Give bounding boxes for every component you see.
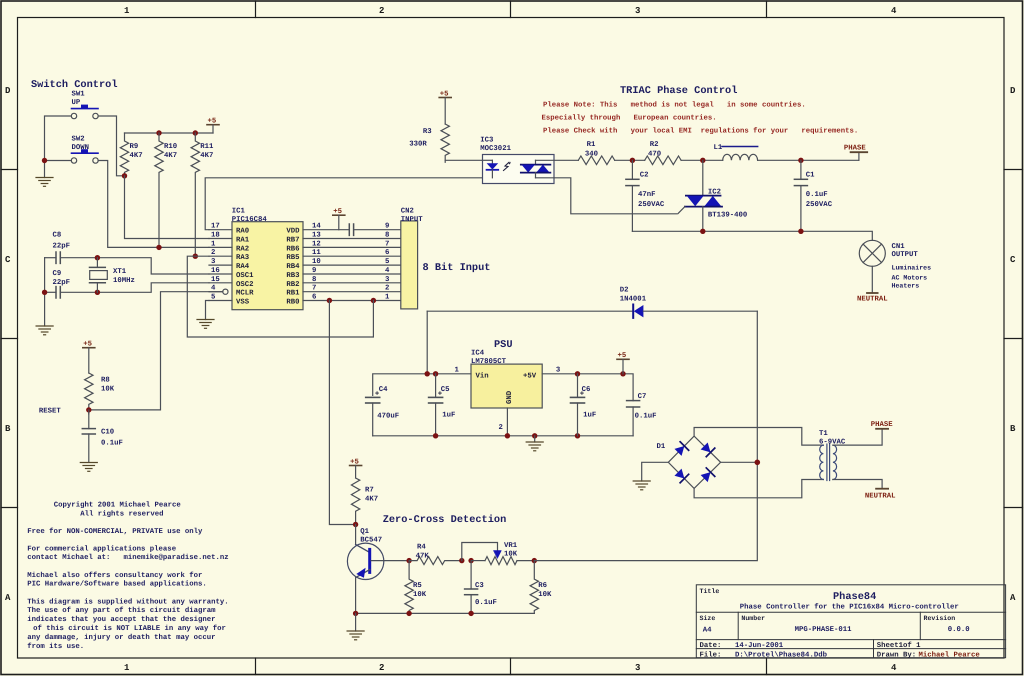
svg-text:any dammage, injury or death t: any dammage, injury or death that may oc… — [27, 633, 215, 642]
junction C1 top — [798, 158, 803, 163]
svg-text:4: 4 — [385, 267, 390, 275]
junction IC2 bottom — [700, 229, 705, 234]
svg-text:17: 17 — [211, 223, 220, 231]
svg-text:3: 3 — [635, 663, 640, 673]
inductor L1 — [722, 147, 758, 161]
svg-text:PHASE: PHASE — [871, 421, 894, 429]
svg-text:5: 5 — [385, 258, 389, 266]
wire C8/C9 ground leg — [44, 258, 46, 326]
svg-text:Switch Control: Switch Control — [31, 79, 118, 91]
transformer T1 primary winding — [820, 445, 824, 479]
svg-text:TRIAC Phase Control: TRIAC Phase Control — [620, 85, 737, 97]
ground (crystal caps) — [36, 326, 53, 335]
wire sense line to bridge — [534, 311, 757, 560]
junction base/R5 — [406, 558, 411, 563]
svg-text:BT139-400: BT139-400 — [708, 212, 747, 220]
junction R6 top — [532, 558, 537, 563]
svg-text:RESET: RESET — [39, 408, 62, 416]
svg-text:GND: GND — [506, 390, 514, 404]
svg-text:C5: C5 — [441, 386, 450, 394]
svg-text:C: C — [1010, 255, 1016, 265]
wire VDD to +5 stem — [303, 229, 349, 231]
title block frame — [696, 585, 1005, 658]
wire secondary top to PHASE — [833, 429, 882, 445]
svg-text:This diagram is supplied witho: This diagram is supplied without any war… — [27, 598, 228, 607]
ruler tick top 2|3 — [510, 1, 512, 18]
wire Vin line — [373, 374, 471, 396]
svg-text:R6: R6 — [538, 582, 547, 590]
svg-text:R1: R1 — [587, 141, 596, 149]
wire +5V output line — [542, 374, 633, 401]
resistor R6 10K — [530, 561, 538, 614]
junction XT1 top — [95, 255, 100, 260]
capacitor C5 1uF (polarized) — [429, 374, 443, 436]
wire RA3 to link rail — [187, 256, 373, 337]
svg-text:+5: +5 — [350, 458, 359, 466]
svg-text:Sheet1of 1: Sheet1of 1 — [877, 641, 921, 650]
svg-text:File:: File: — [700, 650, 722, 659]
svg-text:A4: A4 — [703, 627, 712, 635]
svg-text:IC1: IC1 — [232, 208, 246, 216]
svg-text:The use of any part of this ci: The use of any part of this circuit diag… — [27, 606, 216, 615]
svg-text:C1: C1 — [806, 172, 815, 180]
junction reset node — [86, 407, 91, 412]
capacitor C2 47nF — [626, 160, 639, 231]
ground (switch rail) — [36, 178, 53, 187]
junction R10/RA2 — [156, 245, 161, 250]
svg-text:3: 3 — [635, 6, 640, 16]
port PHASE (output) — [844, 145, 867, 161]
svg-text:15: 15 — [211, 276, 220, 284]
ruler tick top 1|2 — [255, 1, 257, 18]
svg-text:MOC3021: MOC3021 — [480, 145, 511, 153]
svg-text:4K7: 4K7 — [200, 152, 213, 160]
resistor R10 4K7 — [155, 133, 163, 248]
svg-text:+5: +5 — [618, 352, 627, 360]
svg-text:R4: R4 — [417, 544, 426, 552]
svg-text:XT1: XT1 — [113, 268, 127, 276]
svg-text:Heaters: Heaters — [892, 283, 920, 290]
svg-text:10K: 10K — [504, 551, 518, 559]
svg-text:10K: 10K — [413, 591, 427, 599]
svg-text:5: 5 — [211, 294, 215, 302]
svg-text:8: 8 — [385, 232, 389, 240]
wire OSC2 net — [97, 283, 209, 293]
wire node A down to RA1 — [125, 176, 210, 239]
wire ground stem — [355, 613, 357, 631]
resistor R8 10K — [85, 373, 93, 414]
svg-text:CN2: CN2 — [401, 208, 414, 216]
svg-text:of this circuit is NOT LIABLE: of this circuit is NOT LIABLE in any way… — [29, 624, 226, 633]
capacitor C6 1uF (polarized) — [571, 374, 585, 436]
svg-text:9: 9 — [385, 223, 389, 231]
capacitor C8 22pF — [45, 252, 98, 263]
svg-text:D1: D1 — [657, 443, 666, 451]
ground (VSS) — [197, 320, 214, 329]
pin names left RA0-RA4 OSC1 OSC2 MCLR VSS — [236, 228, 254, 307]
svg-text:18: 18 — [211, 232, 220, 240]
svg-text:RB7: RB7 — [286, 237, 299, 245]
svg-text:Vin: Vin — [476, 372, 489, 381]
svg-text:UP: UP — [72, 99, 81, 107]
wire pull-up rail to +5 — [125, 132, 214, 134]
svg-text:7: 7 — [385, 240, 389, 248]
svg-text:Size: Size — [700, 615, 716, 622]
svg-text:D: D — [1010, 86, 1016, 96]
svg-text:10K: 10K — [538, 591, 552, 599]
svg-text:16: 16 — [211, 267, 220, 275]
svg-text:D2: D2 — [620, 287, 629, 295]
transformer T1 core — [827, 444, 830, 480]
svg-text:Q1: Q1 — [360, 528, 369, 536]
ruler tick left D|C — [1, 169, 18, 171]
pin MCLR bubble — [209, 289, 228, 294]
svg-text:Copyright 2001 Michael Pearce: Copyright 2001 Michael Pearce — [54, 501, 182, 510]
capacitor C3 0.1uF — [465, 561, 478, 614]
power +5 (PSU out) — [617, 352, 629, 374]
switch SW2 (DOWN) — [71, 149, 98, 163]
transformer T1 secondary winding — [833, 445, 837, 479]
resistor R11 4K7 — [191, 133, 199, 256]
svg-text:Especially through European: Especially through European countries. — [542, 114, 717, 123]
junction C6 top — [575, 371, 580, 376]
svg-text:SW2: SW2 — [72, 136, 85, 144]
svg-text:PIC Hardware/Software based ap: PIC Hardware/Software based applications… — [27, 580, 207, 589]
junction IC2 top — [700, 158, 705, 163]
wire bridge AC top to transformer — [694, 428, 823, 446]
svg-text:Phase Controller for the PIC16: Phase Controller for the PIC16x84 Micro-… — [740, 603, 959, 612]
wire IC3 pin6 to R1 — [554, 159, 578, 161]
svg-text:INPUT: INPUT — [401, 216, 424, 224]
svg-text:22pF: 22pF — [53, 279, 71, 287]
wire RB0 tap down to zero-cross — [329, 301, 353, 525]
svg-text:14-Jun-2001: 14-Jun-2001 — [735, 642, 784, 650]
junction R5 bottom — [406, 611, 411, 616]
VR1 wiper bypass — [462, 543, 498, 561]
svg-text:22pF: 22pF — [53, 243, 71, 251]
title block divider v2 — [919, 612, 921, 639]
svg-text:470uF: 470uF — [377, 413, 399, 421]
svg-text:A: A — [5, 593, 11, 603]
svg-text:250VAC: 250VAC — [638, 201, 665, 209]
wire R1 to R2 — [615, 159, 645, 161]
D1 diode lower-left — [674, 468, 689, 483]
power +5 (switch rail) — [207, 118, 219, 134]
svg-text:330R: 330R — [409, 141, 427, 149]
junction C9 ground leg — [42, 290, 47, 295]
svg-text:0.0.0: 0.0.0 — [948, 626, 970, 634]
bridge rectifier D1 diamond — [668, 436, 720, 488]
junction C5 top — [433, 371, 438, 376]
svg-text:T1: T1 — [819, 430, 828, 438]
svg-text:4K7: 4K7 — [130, 152, 143, 160]
junction SW2 left — [42, 158, 47, 163]
svg-text:IC4: IC4 — [471, 350, 485, 358]
junction C3 top — [468, 558, 473, 563]
junction C6 bottom — [575, 433, 580, 438]
junction +5 stem — [620, 371, 625, 376]
svg-text:D:\Protel\Phase84.Ddb: D:\Protel\Phase84.Ddb — [735, 650, 828, 659]
wire secondary bottom to NEUTRAL — [833, 480, 882, 489]
svg-text:R2: R2 — [650, 141, 659, 149]
IC3 internal triac — [521, 160, 554, 178]
ground (zero-cross) — [347, 631, 364, 640]
ground (C10) — [80, 463, 97, 472]
svg-text:Number: Number — [741, 615, 765, 622]
svg-text:VDD: VDD — [286, 228, 300, 236]
svg-text:RA3: RA3 — [236, 254, 250, 262]
svg-text:4K7: 4K7 — [164, 152, 177, 160]
svg-text:IC2: IC2 — [708, 189, 721, 197]
wire D2 down to Vin — [426, 311, 428, 374]
pin stubs left of IC1 (17,18,1,2,3,16,15,5) — [209, 230, 232, 301]
junction C5 bottom — [433, 433, 438, 438]
svg-text:RA4: RA4 — [236, 263, 250, 271]
resistor R5 10K — [405, 561, 413, 614]
transistor Q1 BC547 — [347, 525, 406, 614]
port NEUTRAL (mains in) — [865, 489, 896, 501]
junction GND pin — [505, 433, 510, 438]
svg-text:0.1uF: 0.1uF — [635, 413, 657, 421]
power +5 (reset) — [83, 341, 95, 374]
capacitor C4 470uF (polarized) — [366, 391, 380, 436]
svg-text:R3: R3 — [423, 128, 432, 136]
svg-text:All rights reserved: All rights reserved — [80, 510, 163, 519]
title block divider v3 — [873, 640, 875, 658]
power +5 (R7) — [350, 458, 362, 478]
svg-text:4: 4 — [891, 663, 897, 673]
svg-text:R9: R9 — [130, 143, 139, 151]
svg-text:C2: C2 — [640, 172, 649, 180]
svg-text:Date:: Date: — [700, 642, 722, 650]
svg-text:from its use.: from its use. — [27, 642, 84, 651]
svg-text:0.1uF: 0.1uF — [101, 440, 123, 448]
svg-text:C9: C9 — [53, 270, 62, 278]
junction bypass left — [459, 558, 464, 563]
svg-text:OSC2: OSC2 — [236, 281, 254, 289]
svg-text:Michael Pearce: Michael Pearce — [919, 650, 981, 659]
svg-text:RA1: RA1 — [236, 237, 250, 245]
lamp CN1 OUTPUT — [859, 240, 885, 293]
wire SW2 right pin to RA2 — [98, 161, 209, 248]
potentiometer VR1 10K — [471, 557, 534, 565]
svg-text:D: D — [5, 86, 11, 96]
svg-text:0.1uF: 0.1uF — [475, 599, 497, 607]
svg-text:Michael also offers consultanc: Michael also offers consultancy work for — [27, 571, 202, 580]
svg-text:L1: L1 — [714, 144, 723, 152]
svg-text:R7: R7 — [365, 487, 374, 495]
svg-text:8 Bit Input: 8 Bit Input — [423, 262, 491, 274]
svg-text:+5: +5 — [83, 341, 92, 349]
svg-text:OSC1: OSC1 — [236, 272, 254, 280]
power +5 (VDD) — [333, 208, 345, 230]
svg-text:250VAC: 250VAC — [806, 201, 833, 209]
svg-text:470: 470 — [648, 151, 661, 159]
svg-text:Luminaires: Luminaires — [892, 265, 932, 272]
svg-text:B: B — [1010, 424, 1016, 434]
svg-text:NEUTRAL: NEUTRAL — [857, 295, 888, 303]
svg-text:indicates that you accept that: indicates that you accept that the desig… — [27, 615, 215, 624]
power +5 (R3) — [439, 90, 451, 124]
wire SW1 left pin to left rail — [45, 116, 72, 158]
D1 diode lower-right — [700, 468, 715, 483]
D1 diode upper-right — [700, 442, 715, 457]
ruler tick bottom 3|4 — [766, 658, 768, 675]
svg-text:IC3: IC3 — [480, 137, 494, 145]
triac IC2 BT139-400 — [678, 160, 722, 231]
title block divider v1 — [737, 612, 739, 639]
svg-text:6: 6 — [385, 249, 389, 257]
svg-text:VSS: VSS — [236, 299, 250, 307]
svg-text:2: 2 — [379, 6, 384, 16]
svg-text:SW1: SW1 — [72, 91, 86, 99]
port NEUTRAL (output) — [857, 293, 888, 303]
svg-text:47nF: 47nF — [638, 191, 656, 199]
svg-text:C10: C10 — [101, 429, 114, 437]
svg-text:0.1uF: 0.1uF — [806, 191, 828, 199]
ruler tick right D|C — [1004, 169, 1023, 171]
capacitor C7 0.1uF — [627, 401, 640, 436]
svg-text:C6: C6 — [582, 386, 591, 394]
capacitor C9 22pF — [45, 287, 98, 298]
wire bridge plus to sense line — [721, 461, 758, 463]
wire OSC1 net — [97, 258, 209, 274]
svg-text:Zero-Cross Detection: Zero-Cross Detection — [383, 514, 507, 526]
svg-text:47K: 47K — [416, 553, 430, 561]
IC3 internal LED — [483, 160, 499, 178]
junction XT1 bottom — [95, 290, 100, 295]
wire SW2 left pin — [45, 160, 72, 162]
svg-text:RB1: RB1 — [286, 290, 300, 298]
svg-text:RB6: RB6 — [286, 245, 299, 253]
resistor R4 47K — [409, 557, 461, 565]
svg-text:A: A — [1010, 593, 1016, 603]
wire bridge minus to ground — [642, 462, 669, 481]
ground (bridge) — [633, 481, 650, 490]
wire IC3 pin4 to gate — [554, 178, 677, 214]
resistor R9 4K7 — [120, 133, 128, 176]
svg-text:MPG-PHASE-011: MPG-PHASE-011 — [795, 626, 853, 634]
ruler tick left C|B — [1, 338, 18, 340]
wire R3 to IC3 pin1 — [445, 159, 482, 161]
wire L1 to PHASE — [758, 159, 859, 161]
svg-text:10MHz: 10MHz — [113, 277, 135, 285]
svg-text:C4: C4 — [379, 386, 388, 394]
junction R11/RA3 — [193, 254, 198, 259]
svg-text:C: C — [5, 255, 11, 265]
port PHASE (mains in) — [871, 421, 894, 429]
svg-text:contact Michael at: minemike: contact Michael at: minemike@paradise.ne… — [27, 553, 228, 562]
svg-text:RB2: RB2 — [286, 281, 299, 289]
junction R11 top — [193, 130, 198, 135]
ruler tick bottom 2|3 — [510, 658, 512, 675]
svg-text:For commercial applications pl: For commercial applications please — [27, 545, 177, 554]
svg-text:2: 2 — [385, 285, 389, 293]
svg-text:RA0: RA0 — [236, 228, 249, 236]
svg-text:R5: R5 — [413, 582, 422, 590]
wires RB7-RB1 to CN2 pins 8-2 — [303, 239, 401, 292]
svg-text:C7: C7 — [638, 393, 647, 401]
ruler tick left B|A — [1, 507, 18, 509]
svg-text:Phase84: Phase84 — [833, 591, 876, 603]
svg-text:2: 2 — [379, 663, 384, 673]
svg-text:C3: C3 — [475, 582, 484, 590]
opto-triac IC3 MOC3021 body — [483, 155, 555, 184]
svg-text:4K7: 4K7 — [365, 496, 378, 504]
svg-text:NEUTRAL: NEUTRAL — [865, 493, 896, 501]
svg-text:C8: C8 — [53, 232, 62, 240]
svg-text:LM7805CT: LM7805CT — [471, 358, 507, 366]
svg-text:Drawn By:: Drawn By: — [877, 651, 916, 659]
pin numbers right 14,13,12,11,10,9,8,7,6 — [312, 223, 321, 302]
svg-text:10K: 10K — [101, 386, 115, 394]
wire GND pin to rail — [506, 408, 508, 436]
IC3 internal light arrow — [504, 162, 510, 170]
svg-text:PIC16C84: PIC16C84 — [232, 216, 268, 224]
svg-text:RB0: RB0 — [286, 299, 299, 307]
svg-text:PHASE: PHASE — [844, 145, 867, 153]
svg-text:RB5: RB5 — [286, 254, 299, 262]
svg-text:4: 4 — [891, 6, 897, 16]
junction collector node — [353, 522, 358, 527]
IC U1 PIC16C84 body — [232, 222, 303, 310]
diode D2 1N4001 — [427, 305, 757, 318]
junction ground stem — [532, 433, 537, 438]
resistor R7 4K7 — [351, 478, 359, 524]
svg-text:MCLR: MCLR — [236, 290, 254, 298]
svg-text:DOWN: DOWN — [72, 144, 90, 152]
svg-text:RA2: RA2 — [236, 245, 249, 253]
svg-text:Please Note: This method is: Please Note: This method is not legal in… — [543, 101, 806, 110]
pin names right VDD RB7-RB0 — [286, 228, 300, 307]
junction C2 top — [630, 158, 635, 163]
capacitor C10 0.1uF — [82, 410, 95, 462]
D1 diode upper-left — [674, 442, 689, 457]
svg-text:RB3: RB3 — [286, 272, 300, 280]
wire triac output rail — [632, 231, 872, 240]
wire RA0 to IC3 pin2 — [205, 178, 482, 230]
wire MCLR to reset node — [92, 292, 223, 410]
svg-text:VR1: VR1 — [504, 542, 518, 550]
junction RB0/RA3 link tap — [371, 298, 376, 303]
svg-text:1uF: 1uF — [583, 412, 596, 420]
wire left rail down to ground — [44, 161, 46, 178]
svg-text:340: 340 — [585, 151, 598, 159]
ground (PSU) — [534, 436, 536, 442]
svg-text:AC Motors: AC Motors — [892, 275, 928, 282]
svg-text:CN1: CN1 — [892, 243, 906, 251]
svg-text:R10: R10 — [164, 143, 177, 151]
connector CN2 body — [401, 221, 418, 309]
svg-text:PSU: PSU — [494, 339, 513, 351]
svg-text:1: 1 — [124, 6, 130, 16]
IC U4 LM7805CT body — [471, 364, 542, 408]
svg-text:+5: +5 — [208, 118, 217, 126]
svg-text:2: 2 — [211, 249, 215, 257]
svg-text:RB4: RB4 — [286, 263, 300, 271]
svg-text:1: 1 — [211, 240, 216, 248]
junction Vin/D2 — [425, 371, 430, 376]
ruler tick bottom 1|2 — [255, 658, 257, 675]
resistor R3 330R — [441, 124, 449, 162]
ruler tick right B|A — [1004, 507, 1023, 509]
title block divider h2 — [696, 639, 1005, 641]
svg-text:OUTPUT: OUTPUT — [892, 251, 919, 259]
svg-text:BC547: BC547 — [360, 537, 382, 545]
svg-text:Title: Title — [700, 588, 720, 595]
junction bridge plus — [755, 460, 761, 466]
junction C3 bottom — [468, 611, 473, 616]
